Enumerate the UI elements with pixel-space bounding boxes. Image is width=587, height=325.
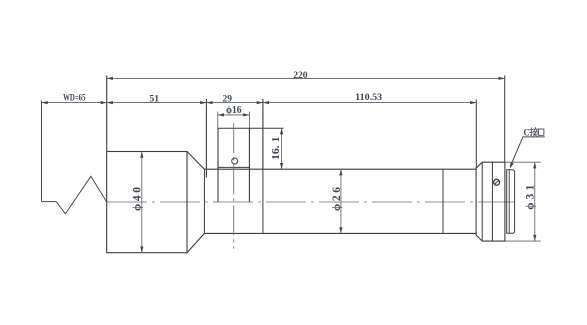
WD=65 arrows — [42, 101, 48, 104]
29 arrows — [206, 101, 212, 104]
flange ridge line 1 — [481, 162, 483, 241]
port set screw — [232, 158, 238, 164]
cone joint vertical — [203, 169, 205, 233]
tube joint line x=263 — [262, 169, 264, 233]
svg-text:C: C — [523, 128, 530, 138]
flange set screw slot — [495, 181, 499, 184]
label 口 (drawn strokes) — [538, 129, 544, 135]
dimension 220 line — [107, 77, 505, 79]
chamfer cone bottom — [187, 233, 204, 252]
flange ridge line 2 — [491, 162, 493, 241]
thread inner line — [508, 170, 510, 233]
object plane line — [41, 101, 43, 202]
dimension Φ40 vertical — [141, 152, 143, 253]
svg-text:ϕ31: ϕ31 — [525, 185, 537, 210]
tube joint line x=443 — [442, 169, 444, 233]
lens body Φ40 front barrel — [107, 152, 187, 253]
Φ16 extension right — [248, 112, 250, 129]
label 接 (drawn strokes) — [530, 128, 538, 137]
Φ16 extension left — [217, 112, 219, 129]
illumination port right edge — [248, 128, 250, 202]
extension line at flange left face — [475, 100, 477, 169]
extension line left (front face) — [106, 75, 108, 151]
C-mount flange ring — [476, 162, 505, 241]
svg-text:ϕ26: ϕ26 — [331, 187, 343, 211]
svg-text:51: 51 — [149, 94, 159, 104]
illumination port top — [218, 127, 284, 129]
svg-text:220: 220 — [293, 71, 308, 81]
svg-text:ϕ40: ϕ40 — [132, 187, 144, 211]
svg-text:WD=65: WD=65 — [63, 94, 86, 104]
Φ31 extension top — [506, 161, 541, 163]
port base seam — [218, 166, 249, 168]
svg-text:110.53: 110.53 — [355, 93, 382, 103]
extension line at tube joint — [262, 99, 264, 169]
dimension 16.1 vertical — [281, 128, 283, 169]
port centerline — [233, 123, 235, 248]
extension line at chamfer end — [205, 99, 207, 178]
main tube Φ26 top edge — [204, 168, 476, 170]
dimension Φ16 line — [218, 114, 250, 116]
C-mount leader line with landing — [510, 137, 545, 167]
C-thread stub — [507, 170, 515, 233]
dimension Φ26 vertical — [340, 169, 342, 233]
extension line right (flange face) — [504, 75, 506, 162]
chamfer cone top — [187, 152, 204, 170]
flange set screw — [494, 179, 500, 185]
svg-text:29: 29 — [223, 94, 233, 104]
svg-text:16. 1: 16. 1 — [270, 136, 282, 160]
chained dimension line WD/51/29/110.53 — [42, 102, 477, 104]
main tube Φ26 bottom edge — [204, 232, 476, 234]
illumination port Φ16 left edge — [217, 128, 219, 202]
dimension Φ31 vertical — [534, 162, 536, 241]
Φ31 extension bottom — [506, 240, 541, 242]
svg-text:ϕ16: ϕ16 — [226, 105, 242, 116]
centerline optical axis — [107, 201, 515, 203]
break zigzag — [42, 176, 107, 214]
51 arrows — [107, 101, 113, 104]
110.53 arrows — [263, 101, 269, 104]
